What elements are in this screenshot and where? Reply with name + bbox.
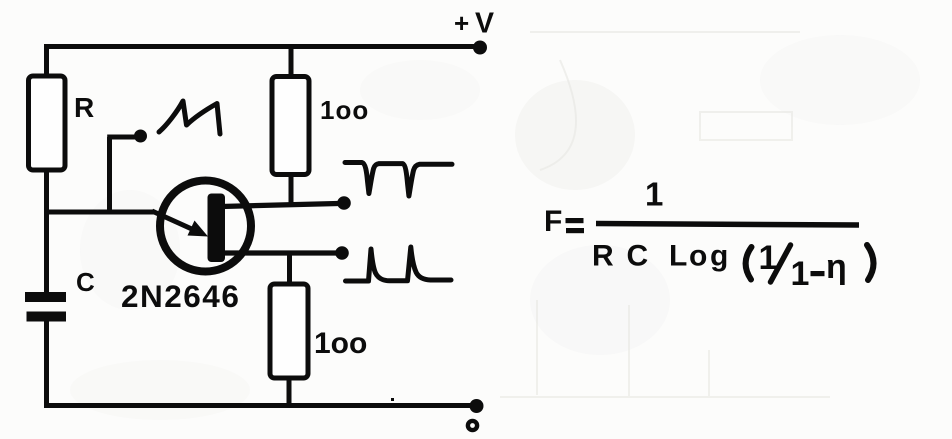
svg-text:1: 1 <box>791 255 810 293</box>
formula denominator RC Log <box>592 240 728 273</box>
wire emitter horizontal <box>44 210 154 215</box>
svg-text:1oo: 1oo <box>320 95 369 125</box>
wire resistor R to capacitor C <box>44 168 49 294</box>
transistor Q1 emitter arrowhead <box>188 221 209 237</box>
resistor 100 lower <box>270 284 308 378</box>
svg-text:o: o <box>689 240 707 273</box>
formula (1/1-eta) <box>746 239 874 293</box>
svg-text:2N2646: 2N2646 <box>121 278 240 314</box>
wire top rail <box>44 44 477 49</box>
wire capacitor to bottom rail <box>44 318 49 407</box>
svg-text:+: + <box>454 8 469 38</box>
node B2 output dot <box>337 196 351 210</box>
svg-text:C: C <box>76 267 95 297</box>
svg-text:C: C <box>627 240 649 273</box>
wire top rail to resistor 100 upper <box>289 45 294 79</box>
label +V <box>454 8 494 40</box>
svg-text:F: F <box>544 205 562 238</box>
transistor Q1 emitter line <box>152 211 194 230</box>
wire resistor 100 lower to bottom rail <box>287 376 292 407</box>
wire bottom rail <box>44 403 473 408</box>
speck on bottom rail <box>391 398 394 401</box>
svg-text:R: R <box>592 240 614 273</box>
wire left vertical top <box>44 45 49 80</box>
svg-text:1: 1 <box>645 176 663 213</box>
capacitor C <box>25 297 66 317</box>
node +V terminal <box>473 41 487 55</box>
wire B2 lead <box>221 204 338 207</box>
wire sawtooth tap vertical <box>107 137 112 214</box>
waveform sawtooth at emitter <box>159 101 220 134</box>
node B1 output dot <box>335 246 349 260</box>
wire B1 lead <box>221 250 336 255</box>
transistor Q1 2N2646 body <box>160 181 251 272</box>
svg-text:η: η <box>826 248 847 286</box>
svg-text:L: L <box>669 240 687 273</box>
node sawtooth tap dot <box>134 130 147 143</box>
svg-text:V: V <box>475 8 494 40</box>
formula fraction bar <box>596 224 859 226</box>
transistor Q1 base bar <box>208 194 226 263</box>
formula F= <box>544 205 584 238</box>
node ground terminal <box>470 399 484 413</box>
resistor 100 upper <box>272 77 309 175</box>
label o terminal <box>468 421 477 430</box>
svg-text:1oo: 1oo <box>314 327 367 360</box>
waveform B2 negative pulses <box>345 163 452 197</box>
wire resistor 100 upper to B2 lead <box>289 173 294 207</box>
wire B1 to resistor 100 lower <box>287 251 292 286</box>
waveform B1 positive pulses <box>346 247 452 281</box>
resistor R <box>29 76 66 170</box>
wire sawtooth tap horizontal <box>107 135 136 140</box>
svg-text:g: g <box>710 240 728 273</box>
svg-text:R: R <box>74 92 94 123</box>
